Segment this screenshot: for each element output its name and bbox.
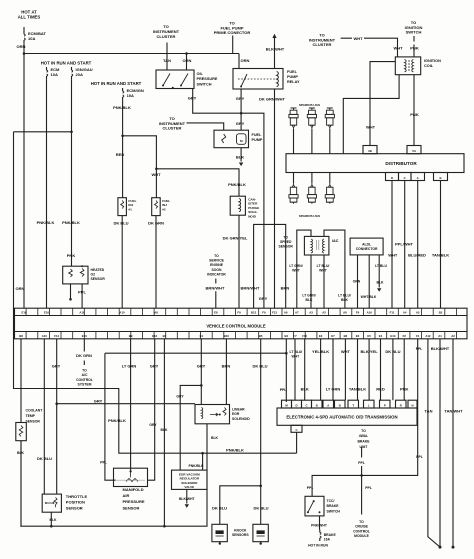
sensor box knock sensor 2 (253, 524, 268, 541)
wire PNK/WHT below TCC switch (319, 516, 321, 530)
wire GRY branch to VCM (241, 113, 264, 308)
svg-text:A1: A1 (438, 334, 442, 338)
terminal B (434, 173, 448, 181)
svg-text:TO: TO (214, 254, 219, 258)
svg-text:SWITCH: SWITCH (327, 510, 341, 514)
svg-text:TAN: TAN (163, 58, 171, 63)
svg-text:WHT: WHT (292, 269, 301, 273)
wire fuel gauge sender (187, 123, 224, 130)
terminal L (transmission) (364, 400, 375, 408)
sensor box throttle position sensor (42, 494, 61, 512)
svg-text:B6: B6 (344, 334, 348, 338)
terminal T (transmission) (348, 400, 359, 408)
wire BLU/RED distributor A to VCM (417, 181, 419, 309)
wire PNK feed to O2 heater (71, 79, 73, 266)
svg-text:BLK/YEL: BLK/YEL (361, 349, 379, 354)
svg-text:E1: E1 (200, 334, 204, 338)
svg-text:SENSORS: SENSORS (232, 533, 249, 537)
svg-text:LT BLU: LT BLU (375, 264, 387, 268)
svg-text:ELECTRONIC 4-SPD AUTOMATIC O/D: ELECTRONIC 4-SPD AUTOMATIC O/D TRANSMISS… (286, 414, 397, 419)
svg-text:GRY: GRY (188, 96, 197, 101)
svg-text:B5: B5 (259, 334, 263, 338)
wire plug lead (329, 129, 331, 154)
spark plug top #2 (309, 108, 315, 110)
svg-text:IGNITION: IGNITION (424, 59, 441, 63)
svg-text:A: A (327, 404, 329, 408)
svg-text:COOLANT: COOLANT (26, 409, 44, 413)
svg-text:CLUSTER: CLUSTER (313, 42, 332, 47)
svg-text:YEL/BLK: YEL/BLK (312, 349, 329, 354)
solenoid box linear EGR solenoid (195, 405, 230, 424)
svg-text:SWITCH: SWITCH (197, 82, 212, 86)
svg-text:VEHICLE CONTROL MODULE: VEHICLE CONTROL MODULE (206, 323, 265, 328)
svg-text:B: B (339, 404, 341, 408)
wire to transmission A (332, 339, 334, 400)
spark plug top #3 (327, 108, 333, 110)
svg-text:THROTTLE: THROTTLE (66, 494, 88, 499)
svg-text:NOID: NOID (248, 214, 257, 218)
svg-text:LT GRN: LT GRN (326, 386, 341, 391)
svg-text:GRY: GRY (259, 296, 268, 301)
wire WHT tach lead (341, 38, 398, 57)
wire to transmission L (368, 339, 370, 400)
svg-text:SENSOR: SENSOR (91, 277, 106, 281)
terminal D (386, 173, 399, 181)
svg-text:F9: F9 (356, 311, 360, 315)
wire BLK linear EGR to ground rail (20, 424, 207, 526)
svg-text:PNK/BLK: PNK/BLK (37, 220, 55, 225)
wire plug lead (293, 173, 295, 184)
svg-text:PNK: PNK (67, 253, 76, 258)
svg-text:ORN: ORN (241, 58, 250, 63)
svg-text:SENSOR: SENSOR (123, 505, 140, 510)
svg-text:PNK/BLK: PNK/BLK (226, 448, 244, 453)
svg-text:CLUSTER: CLUSTER (163, 126, 182, 131)
svg-text:T: T (352, 404, 354, 408)
svg-text:F14: F14 (54, 334, 59, 338)
wire DK GRN to A/C control (83, 339, 85, 365)
wire GRY to linear EGR (57, 403, 195, 405)
wire ORN to oil pressure switch (186, 54, 188, 71)
svg-text:TAN/WHT: TAN/WHT (444, 408, 463, 413)
switch box TCC/brake switch (305, 496, 324, 516)
sensor box coolant temp sensor (16, 423, 26, 441)
svg-text:GRY: GRY (236, 121, 245, 126)
svg-text:ORN: ORN (183, 58, 192, 63)
svg-text:PPL: PPL (416, 455, 423, 459)
wire TAN/WHT from A2 (452, 339, 454, 547)
svg-text:LT BLU/: LT BLU/ (290, 350, 303, 354)
svg-text:BLK/WHT: BLK/WHT (431, 346, 450, 351)
wire PPL O2 signal (81, 284, 83, 308)
svg-text:VA: VA (412, 149, 416, 153)
wire DK GRN/WHT relay coil to VCM (274, 89, 276, 308)
wire to transmission D (294, 339, 296, 400)
wire BRN/WHT speed sensor net (254, 224, 286, 308)
wire PPL MAP output column (105, 353, 116, 480)
terminal A (411, 173, 425, 181)
svg-text:HOT IN RUN AND START: HOT IN RUN AND START (41, 61, 92, 66)
svg-text:PNK/BLK: PNK/BLK (108, 418, 126, 423)
terminal C (transmission) (302, 400, 312, 408)
svg-text:SPARKPLUGS: SPARKPLUGS (299, 214, 320, 218)
fuse ECM/BAT 10A (23, 27, 25, 31)
svg-text:L: L (368, 404, 370, 408)
svg-text:4WAL: 4WAL (359, 434, 368, 438)
svg-text:RED: RED (376, 386, 385, 391)
svg-text:BRAKE: BRAKE (357, 440, 370, 444)
wire LT GRN/BLK IAC A coil lo (310, 255, 312, 308)
terminal C (399, 173, 412, 181)
wire BRN/WHT to indicator (215, 279, 217, 309)
svg-text:CLUSTER: CLUSTER (157, 34, 176, 39)
svg-text:16A: 16A (324, 538, 331, 542)
svg-text:SWITCH: SWITCH (406, 30, 422, 35)
svg-text:A10: A10 (119, 311, 125, 315)
wire plug lead (311, 129, 313, 154)
svg-text:KNOCK: KNOCK (234, 529, 247, 533)
svg-text:2B: 2B (368, 149, 372, 153)
wire DK GRN injector 2 to VCM (155, 216, 157, 309)
wire to transmission P (380, 339, 382, 400)
svg-text:PNK/BLK: PNK/BLK (113, 105, 131, 110)
svg-text:HEATED: HEATED (91, 268, 105, 272)
wire coolant temp sensor signal (20, 339, 22, 423)
wire LT GRN MAP feed (130, 339, 132, 471)
spark plug top #1 (291, 108, 297, 110)
wire to transmission B (320, 339, 322, 400)
wire GRY TPS feed (56, 339, 58, 494)
svg-text:D: D (391, 176, 393, 180)
svg-text:TO: TO (283, 236, 288, 240)
svg-text:PRESSURE: PRESSURE (197, 77, 218, 81)
wire to transmission N (403, 339, 405, 400)
svg-text:POSITION: POSITION (66, 500, 85, 505)
svg-text:SENSOR: SENSOR (26, 420, 41, 424)
svg-text:A/C: A/C (82, 373, 88, 377)
svg-text:D: D (295, 404, 297, 408)
fuse ECM 10A (46, 67, 48, 79)
svg-text:WHT: WHT (366, 125, 376, 130)
svg-text:BLK: BLK (236, 155, 244, 160)
svg-text:SENSOR: SENSOR (279, 245, 294, 249)
terminal VA (407, 146, 421, 154)
wire BLK/WHT from A1 (439, 339, 441, 547)
svg-text:B: B (316, 404, 318, 408)
terminal C (transmission bottom) (291, 425, 302, 432)
svg-text:TO: TO (82, 369, 87, 373)
svg-text:C: C (295, 428, 297, 432)
svg-text:B9: B9 (129, 334, 133, 338)
svg-text:ENGINE: ENGINE (210, 263, 224, 267)
svg-text:CRUISE: CRUISE (355, 525, 369, 529)
svg-text:HOT IN RUN AND START: HOT IN RUN AND START (91, 81, 142, 86)
svg-text:TAN: TAN (425, 408, 433, 413)
svg-text:GRY: GRY (176, 395, 184, 399)
svg-text:CONTROL: CONTROL (76, 378, 93, 382)
wire WHT branch to injector 2 (123, 136, 157, 198)
switch box oil pressure switch (156, 70, 194, 89)
wire LT BLU/WHT MAP signal net (105, 339, 286, 402)
wire plug lead (293, 129, 295, 154)
svg-text:SOLENOID: SOLENOID (232, 417, 250, 421)
sensor box manifold air pressure sensor (114, 468, 148, 486)
terminal B (transmission) (335, 400, 346, 408)
wire to transmission C (304, 339, 306, 400)
wire branch to canister purge solenoid (156, 169, 239, 196)
svg-text:PPL: PPL (280, 388, 287, 392)
svg-text:LINEAR: LINEAR (232, 408, 245, 412)
svg-text:LT GRN: LT GRN (122, 364, 137, 369)
wire PPL to brake unit (361, 447, 363, 475)
svg-text:WHT: WHT (319, 269, 328, 273)
svg-text:WHT/BLK: WHT/BLK (361, 295, 377, 299)
svg-text:E4: E4 (379, 334, 383, 338)
svg-text:PPL: PPL (416, 347, 423, 351)
terminal R (transmission) (396, 400, 407, 408)
svg-text:DK GRN/YEL: DK GRN/YEL (223, 236, 248, 241)
svg-text:BRN: BRN (222, 364, 231, 369)
svg-text:A16: A16 (79, 311, 85, 315)
svg-text:C: C (404, 176, 406, 180)
svg-text:RED: RED (116, 152, 125, 157)
svg-text:MODULE: MODULE (354, 534, 369, 538)
svg-text:F9: F9 (237, 311, 241, 315)
svg-text:CONTROL: CONTROL (353, 529, 370, 533)
svg-text:BRAKE: BRAKE (327, 504, 340, 508)
svg-text:A3: A3 (309, 311, 313, 315)
wire BLK/WHT EVRSV ground (186, 489, 188, 503)
svg-text:ORN: ORN (353, 280, 361, 284)
wire prime connector tap (232, 36, 234, 54)
svg-text:A16: A16 (367, 311, 373, 315)
svg-text:TO: TO (359, 520, 364, 524)
svg-text:PPL: PPL (100, 461, 107, 465)
svg-text:ORN: ORN (16, 286, 25, 291)
wire DK BLU knock feed (260, 339, 262, 486)
svg-text:LT GRN/: LT GRN/ (302, 294, 315, 298)
svg-text:LT BLU/: LT BLU/ (338, 294, 351, 298)
terminal 2B (363, 146, 377, 154)
wire LT GRN/WHT IAC A coil hi (297, 230, 311, 308)
svg-text:PNK: PNK (410, 46, 419, 51)
terminal B (transmission) (312, 400, 323, 408)
svg-text:PUMP: PUMP (252, 138, 263, 142)
svg-text:TCC/: TCC/ (327, 499, 335, 503)
svg-text:LT BLU/: LT BLU/ (317, 264, 330, 268)
svg-text:BLK: BLK (211, 436, 219, 440)
ground fuel pump (239, 163, 243, 167)
svg-text:E10: E10 (82, 334, 87, 338)
wire LT BLU / BLK ALDL ground (378, 255, 380, 288)
svg-text:SPARKPLUGS: SPARKPLUGS (299, 103, 320, 107)
ground ALDL (377, 288, 381, 292)
svg-text:E6: E6 (356, 334, 360, 338)
wire PPL TCC net from F1 (312, 339, 418, 497)
wire ORN to fuel pump relay (238, 54, 240, 69)
svg-text:F11: F11 (390, 311, 395, 315)
svg-text:E3: E3 (319, 334, 323, 338)
svg-text:PPL: PPL (358, 461, 365, 465)
svg-text:MANIFOLD: MANIFOLD (123, 487, 144, 492)
svg-text:20A: 20A (76, 72, 83, 77)
wire BLK fuel pump ground (240, 148, 242, 162)
svg-text:BLU/RED: BLU/RED (408, 253, 426, 258)
svg-text:PPL: PPL (365, 486, 372, 490)
injector FUEL INJ #1 (118, 198, 127, 216)
svg-text:AIR: AIR (123, 493, 130, 498)
svg-text:SPEED: SPEED (280, 240, 292, 244)
svg-text:DK BLU: DK BLU (385, 349, 400, 354)
svg-text:E16: E16 (22, 311, 27, 315)
wire DK BLU to knock sensor 1 (220, 486, 261, 525)
svg-text:#2: #2 (162, 207, 166, 211)
wire DK BLU to knock sensor 2 (260, 486, 262, 525)
injector FUEL INJ #2 (152, 198, 161, 216)
svg-text:LT GRN/: LT GRN/ (289, 264, 302, 268)
wire DK GRN/YEL canister to VCM (238, 215, 240, 308)
svg-text:BLK/WHT: BLK/WHT (266, 47, 285, 52)
svg-text:#1: #1 (128, 207, 132, 211)
svg-text:BRN/WHT: BRN/WHT (206, 286, 225, 291)
svg-text:BLK: BLK (341, 298, 349, 302)
svg-text:EGR: EGR (232, 412, 240, 416)
svg-text:UNIT: UNIT (360, 445, 369, 449)
fuse ECM/IGN 10A (122, 88, 124, 100)
svg-text:PNK/BLK: PNK/BLK (62, 220, 80, 225)
wire WHT distributor D to VCM (391, 181, 393, 309)
svg-text:B12: B12 (251, 311, 257, 315)
svg-text:DK GRN/WHT: DK GRN/WHT (259, 97, 286, 102)
svg-text:INDICATOR: INDICATOR (207, 272, 226, 276)
terminal A (transmission) (323, 400, 334, 408)
svg-text:E14: E14 (152, 334, 157, 338)
svg-text:HOT IN RUN: HOT IN RUN (308, 543, 328, 547)
wire GRY MAP right (148, 339, 155, 480)
svg-text:DK BLU: DK BLU (113, 221, 128, 226)
wire coil secondary to distributor cap (343, 75, 399, 154)
wire plug lead (329, 173, 331, 184)
svg-text:FUEL: FUEL (252, 133, 263, 137)
wire DK BLU TPS signal (43, 339, 45, 494)
svg-text:P: P (384, 404, 386, 408)
wire PNK/BLK from ECM fuse (46, 79, 48, 308)
wire ORN ALDL to VCM (357, 255, 359, 308)
svg-text:BLK: BLK (377, 281, 385, 285)
svg-text:GRY: GRY (52, 364, 61, 369)
svg-text:E5: E5 (367, 334, 371, 338)
svg-text:ORN: ORN (17, 44, 26, 49)
node junction PNK/BLK EVRSV (201, 452, 204, 455)
svg-text:10A: 10A (28, 36, 35, 41)
svg-text:ALL TIMES: ALL TIMES (18, 15, 41, 20)
svg-text:A7: A7 (295, 311, 299, 315)
svg-text:A8: A8 (343, 311, 347, 315)
wire PNK coil to distributor VA (413, 75, 415, 146)
svg-text:DK BLU: DK BLU (253, 506, 268, 511)
svg-text:SOON: SOON (212, 268, 223, 272)
svg-text:E8: E8 (214, 311, 218, 315)
svg-text:TAN/BLK: TAN/BLK (432, 253, 449, 258)
svg-text:PPL/WHT: PPL/WHT (395, 242, 414, 247)
svg-text:DK BLU: DK BLU (37, 456, 52, 461)
svg-text:E7: E7 (331, 334, 335, 338)
svg-text:BLK: BLK (50, 518, 58, 522)
svg-text:M: M (240, 139, 243, 143)
svg-text:GRY: GRY (150, 364, 159, 369)
wire BLK/WHT from above into relay (274, 38, 276, 69)
svg-text:E16: E16 (44, 311, 49, 315)
terminal P (transmission) (380, 400, 391, 408)
svg-text:VALVE: VALVE (184, 485, 194, 489)
svg-text:GRY: GRY (149, 423, 157, 427)
svg-text:WHT: WHT (388, 253, 398, 258)
svg-text:BRAKE: BRAKE (324, 533, 337, 537)
svg-text:IAC: IAC (332, 239, 339, 243)
node junction GRY MAP feed (55, 402, 58, 405)
svg-text:SERVICE: SERVICE (209, 259, 225, 263)
svg-text:CONNECTOR: CONNECTOR (356, 247, 378, 251)
svg-text:TO: TO (361, 429, 366, 433)
wire GRY oil switch to junction (193, 89, 241, 114)
sensor box heated O2 sensor (63, 266, 88, 284)
svg-text:OIL: OIL (197, 72, 204, 76)
wire left feed rail to PNK/BLK branch (14, 132, 297, 453)
module VEHICLE CONTROL MODULE (15, 308, 468, 339)
wire PNK from ignition switch (413, 36, 415, 57)
wire BLK coolant sensor to ground rail (20, 441, 22, 527)
svg-text:DK GRN: DK GRN (148, 221, 164, 226)
connector box ALDL CONNECTOR (350, 238, 383, 255)
svg-text:WHT: WHT (393, 46, 403, 51)
svg-text:B3: B3 (163, 334, 167, 338)
svg-text:BRN/WHT: BRN/WHT (241, 286, 260, 291)
sensor box knock sensor 1 (212, 524, 227, 541)
svg-text:B10: B10 (224, 334, 230, 338)
wire PNK/BLK into EVRSV (202, 453, 204, 470)
svg-text:BLK: BLK (301, 386, 309, 391)
svg-text:O2: O2 (91, 273, 96, 277)
svg-text:F7: F7 (293, 334, 297, 338)
solenoid box canister purge solenoid (230, 196, 245, 215)
spark plug bottom #2 (311, 183, 314, 187)
node junction ORN drop (185, 52, 188, 55)
svg-text:PPL: PPL (307, 486, 314, 490)
svg-text:10A: 10A (51, 72, 58, 77)
wire PPL to cruise control (361, 475, 363, 514)
wire PPL/WHT distributor C to VCM (404, 181, 406, 309)
svg-text:BRN: BRN (281, 286, 290, 291)
node junction canister purge branch (155, 168, 158, 171)
wire plug lead (311, 173, 313, 184)
svg-text:SYSTEM: SYSTEM (78, 383, 92, 387)
svg-text:PNK/WHT: PNK/WHT (311, 524, 328, 528)
wire PNK/BLK injector feed (122, 100, 124, 198)
svg-text:DISTRIBUTOR: DISTRIBUTOR (385, 161, 417, 166)
svg-text:B2: B2 (439, 311, 443, 315)
node junction ORN bus (23, 52, 26, 55)
spark plug bottom #3 (328, 183, 331, 187)
wire WHT coil primary to distributor 2B (370, 62, 395, 146)
svg-text:F2: F2 (403, 334, 407, 338)
node junction PPL brake unit tap (360, 474, 363, 477)
svg-text:GRY: GRY (236, 96, 245, 101)
svg-text:A: A (417, 176, 419, 180)
wire top ORN bus (24, 53, 239, 55)
wire O2 sensor low (70, 284, 72, 299)
svg-text:A2: A2 (322, 311, 326, 315)
wire GRY E1 column (200, 339, 202, 405)
